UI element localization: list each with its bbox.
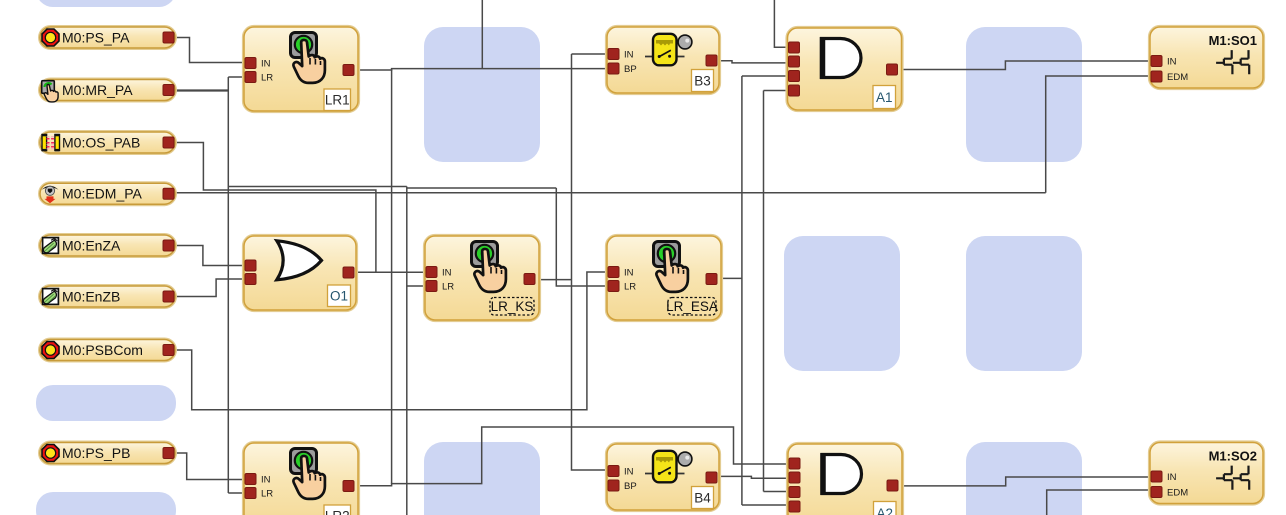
svg-text:O1: O1: [330, 289, 348, 304]
svg-text:B4: B4: [694, 490, 711, 505]
svg-text:M0:MR_PA: M0:MR_PA: [62, 82, 133, 98]
svg-text:BP: BP: [624, 64, 637, 75]
svg-text:M0:PSBCom: M0:PSBCom: [62, 342, 143, 358]
svg-text:EDM: EDM: [1167, 487, 1188, 498]
svg-text:M1:SO2: M1:SO2: [1209, 449, 1257, 464]
svg-text:IN: IN: [1167, 56, 1177, 67]
svg-text:IN: IN: [624, 267, 634, 278]
svg-text:LR_ESA: LR_ESA: [666, 299, 718, 314]
svg-text:M0:PS_PB: M0:PS_PB: [62, 445, 130, 461]
svg-text:M1:SO1: M1:SO1: [1209, 33, 1257, 48]
svg-text:M0:PS_PA: M0:PS_PA: [62, 30, 130, 46]
svg-text:LR_KS: LR_KS: [491, 299, 534, 314]
svg-text:IN: IN: [624, 466, 634, 477]
svg-text:M0:EDM_PA: M0:EDM_PA: [62, 186, 143, 202]
svg-text:LR: LR: [442, 281, 454, 292]
svg-text:LR1: LR1: [325, 93, 350, 108]
svg-text:B3: B3: [694, 73, 711, 88]
svg-text:EDM: EDM: [1167, 72, 1188, 83]
svg-text:A1: A1: [876, 90, 893, 105]
svg-text:LR2: LR2: [325, 509, 350, 515]
svg-text:LR: LR: [261, 72, 273, 83]
svg-text:LR: LR: [261, 488, 273, 499]
svg-text:IN: IN: [624, 49, 634, 60]
svg-text:IN: IN: [261, 58, 271, 69]
svg-text:IN: IN: [261, 474, 271, 485]
svg-text:M0:EnZB: M0:EnZB: [62, 289, 120, 305]
svg-text:M0:OS_PAB: M0:OS_PAB: [62, 135, 140, 151]
svg-text:IN: IN: [442, 267, 452, 278]
svg-text:A2: A2: [877, 506, 894, 515]
svg-text:IN: IN: [1167, 472, 1177, 483]
svg-text:LR: LR: [624, 281, 636, 292]
svg-text:BP: BP: [624, 481, 637, 492]
svg-text:M0:EnZA: M0:EnZA: [62, 238, 121, 254]
